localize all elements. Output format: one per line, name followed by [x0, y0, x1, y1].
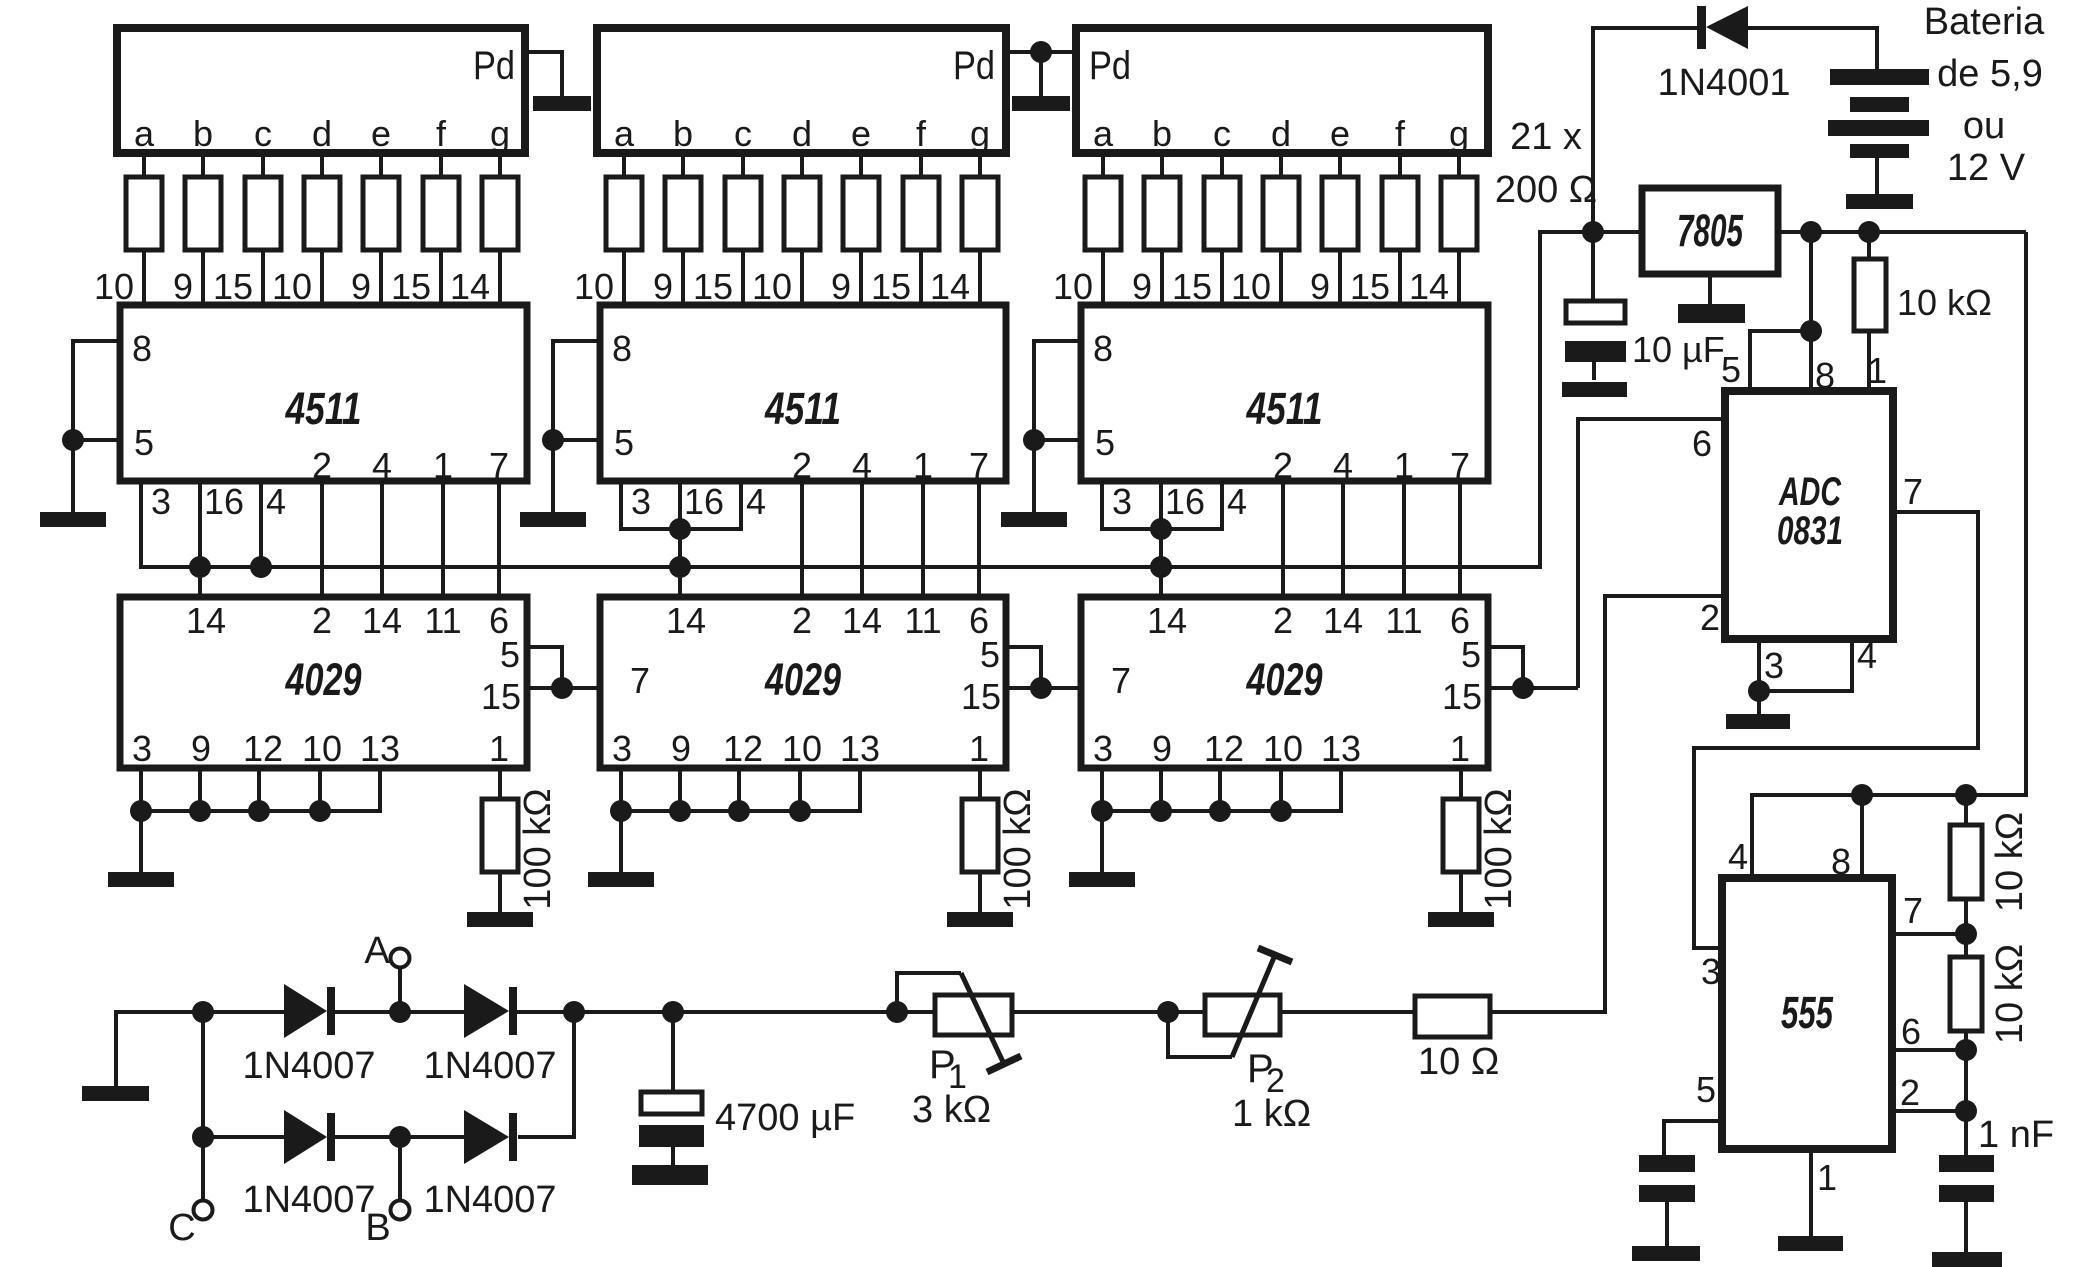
diode 1N4007 D2	[464, 984, 509, 1038]
svg-text:2: 2	[312, 445, 332, 486]
diode 1N4007 D1	[284, 984, 327, 1038]
svg-text:10 kΩ: 10 kΩ	[1989, 812, 2031, 912]
svg-text:15: 15	[1350, 266, 1390, 307]
svg-text:Bateria: Bateria	[1924, 1, 2045, 43]
wire 4700uF down	[671, 1012, 675, 1092]
resistor 10 kOhm (Vref)	[1854, 259, 1886, 331]
svg-text:3: 3	[151, 481, 171, 522]
wire ADC pin 3	[1757, 639, 1761, 691]
wire 555 pin 7	[1892, 932, 1966, 936]
svg-text:b: b	[1152, 113, 1172, 154]
svg-text:15: 15	[961, 676, 1001, 717]
svg-text:9: 9	[191, 728, 211, 769]
svg-text:14: 14	[362, 600, 402, 641]
ground (100k #3)	[1428, 912, 1494, 927]
wire 555 pin 5 to capacitor	[1664, 1121, 1722, 1155]
junction P2 bypass	[1157, 1001, 1179, 1023]
wire P2 bypass	[1168, 1012, 1232, 1057]
svg-text:10: 10	[1263, 728, 1303, 769]
svg-text:12: 12	[1204, 728, 1244, 769]
wire 10k top	[1867, 232, 1871, 259]
junction 10k chain top	[1955, 784, 1977, 806]
wire 10k to ADC pin 1	[1867, 331, 1871, 391]
svg-text:4511: 4511	[764, 383, 841, 434]
IC 4511 #1	[120, 305, 527, 481]
svg-text:100 kΩ: 100 kΩ	[1478, 788, 1520, 909]
svg-text:9: 9	[671, 728, 691, 769]
wire DISP2.g to resistor	[978, 153, 982, 177]
svg-text:a: a	[614, 113, 635, 154]
junction tie bus #3 +80	[1150, 800, 1172, 822]
wire 4029#3 bottom tie bus	[1102, 809, 1341, 813]
svg-text:de 5,9: de 5,9	[1937, 53, 2043, 95]
wire ADC pin 4	[1759, 639, 1852, 691]
diode 1N4001	[1697, 6, 1706, 49]
svg-text:g: g	[970, 113, 990, 154]
wire ADC pin 5	[1750, 331, 1811, 391]
wire 555 pin 6	[1892, 1048, 1966, 1052]
resistor 200 ohm (DISP3 seg a)	[1085, 177, 1121, 250]
wire Vcc rail to 555 pins 4/8	[1752, 232, 2026, 878]
svg-text:3: 3	[631, 481, 651, 522]
terminal B	[391, 1201, 410, 1220]
capacitor 10 uF	[1566, 301, 1625, 323]
wire resistor to 4511 pin 15	[919, 250, 923, 305]
ground (4700uF)	[632, 1165, 708, 1185]
svg-text:a: a	[1093, 113, 1114, 154]
svg-text:e: e	[371, 113, 391, 154]
svg-text:5: 5	[1696, 1069, 1716, 1110]
wire 4029#1 pin 15 to 4029#3 pin 7	[527, 686, 600, 690]
resistor 200 ohm (DISP1 seg e)	[363, 177, 399, 250]
wire DISP1.f to resistor	[439, 153, 443, 177]
svg-text:4511: 4511	[1246, 383, 1323, 434]
ground (4029#3 bus)	[1069, 872, 1135, 887]
ground (555 pin 1)	[1778, 1236, 1843, 1251]
svg-text:12: 12	[723, 728, 763, 769]
wire 4029#1 tie bus to ground	[139, 811, 143, 873]
wire resistor to 4511 pin 15	[261, 250, 265, 305]
svg-text:3: 3	[1093, 728, 1113, 769]
wire 1nF to ground	[1964, 1202, 1968, 1253]
wire bridge negative to ground	[116, 1012, 203, 1087]
svg-text:10: 10	[574, 266, 614, 307]
capacitor 4700 uF	[641, 1092, 702, 1114]
ground (10uF)	[1562, 382, 1627, 397]
svg-text:16: 16	[204, 481, 244, 522]
wire D1 anode	[203, 1010, 284, 1014]
wire ADC pin 2 from 10 ohm	[1605, 596, 1725, 1012]
resistor 100 kOhm #1	[482, 799, 518, 872]
ground (pin5 cap)	[1632, 1246, 1700, 1261]
svg-text:1: 1	[1867, 350, 1887, 391]
capacitor 1 nF	[1939, 1155, 1994, 1172]
junction bridge left lower	[192, 1126, 214, 1148]
svg-text:9: 9	[1310, 266, 1330, 307]
wire resistor to 4511 pin 10	[800, 250, 804, 305]
wire 4511#3 pin 4 down	[1220, 481, 1224, 531]
svg-text:4700 µF: 4700 µF	[715, 1097, 855, 1139]
svg-text:4: 4	[746, 481, 766, 522]
wire resistor to 4511 pin 15	[1220, 250, 1224, 305]
regulator 7805	[1642, 188, 1778, 274]
IC 555	[1722, 878, 1892, 1149]
svg-text:d: d	[792, 113, 812, 154]
svg-text:2: 2	[1273, 445, 1293, 486]
svg-text:7: 7	[969, 445, 989, 486]
svg-text:16: 16	[1165, 481, 1205, 522]
wire common bus to 7805 input	[141, 232, 1642, 567]
svg-text:3: 3	[132, 728, 152, 769]
wire 4700uF to ground	[671, 1147, 675, 1167]
svg-text:10 kΩ: 10 kΩ	[1897, 282, 1992, 323]
svg-text:8: 8	[612, 328, 632, 369]
ground (bridge)	[82, 1086, 149, 1101]
wire 4511#1 pin 7 to 4029	[497, 481, 501, 597]
wire D1 cathode to node A	[335, 1010, 464, 1014]
junction ADC pin5/pin8	[1800, 320, 1822, 342]
capacitor (555 pin 5)	[1639, 1155, 1695, 1172]
wire 4029#3 bottom pin at +80	[1159, 768, 1163, 813]
svg-text:7: 7	[489, 445, 509, 486]
resistor 100 kOhm #3	[1443, 799, 1479, 872]
svg-text:11: 11	[1385, 600, 1422, 641]
resistor 200 ohm (DISP2 seg d)	[784, 177, 820, 250]
diode 1N4007 D3	[284, 1110, 327, 1164]
svg-text:4: 4	[1227, 481, 1247, 522]
svg-text:4: 4	[266, 481, 286, 522]
svg-text:10 Ω: 10 Ω	[1418, 1041, 1499, 1083]
wire DISP3.c to resistor	[1220, 153, 1224, 177]
svg-text:4: 4	[1333, 445, 1353, 486]
svg-text:4: 4	[372, 445, 392, 486]
junction tie bus #3 +200	[1270, 800, 1292, 822]
svg-text:g: g	[490, 113, 510, 154]
junction tie bus #1 +80	[189, 800, 211, 822]
junction bus/pin14 #3	[1150, 556, 1172, 578]
svg-text:9: 9	[831, 266, 851, 307]
wire 4029#1 pin 1 to resistor	[498, 768, 502, 799]
wire 4029#1 bottom pin at +139	[257, 768, 261, 813]
svg-text:e: e	[1330, 113, 1350, 154]
svg-text:1: 1	[1817, 1157, 1837, 1198]
wire 1N4001 cathode line	[1593, 28, 1698, 230]
wire DISP1.a to resistor	[142, 153, 146, 177]
wire DISP2.e to resistor	[859, 153, 863, 177]
wire 4029#3 bottom pin at +21	[1100, 768, 1104, 813]
wire 4511#3 pin 5	[1034, 438, 1081, 442]
ground (1nF)	[1932, 1252, 2002, 1267]
ground (4511#1)	[40, 512, 106, 527]
svg-text:2: 2	[1273, 600, 1293, 641]
wire 4511#1 pin 4 to 4029	[380, 481, 384, 597]
wire P1 to P2	[1012, 1010, 1205, 1014]
junction Pd2/Pd3	[1030, 41, 1052, 63]
svg-text:11: 11	[424, 600, 461, 641]
junction P1 bypass	[886, 1001, 908, 1023]
junction tie bus #1 +139	[248, 800, 270, 822]
wire D3 cathode to node B	[335, 1135, 464, 1139]
svg-text:5: 5	[614, 422, 634, 463]
ground (4029#1 bus)	[108, 872, 174, 887]
wire 4029#3 pin 1 to resistor	[1459, 768, 1463, 799]
resistor 200 ohm (DISP2 seg e)	[843, 177, 879, 250]
svg-text:2: 2	[312, 600, 332, 641]
svg-text:g: g	[1449, 113, 1469, 154]
wire DISP1.d to resistor	[320, 153, 324, 177]
wire 555 pin 8	[1860, 795, 1864, 878]
resistor 100 kOhm #2	[962, 799, 998, 872]
wire DISP3.e to resistor	[1338, 153, 1342, 177]
junction 555 pin 7	[1955, 923, 1977, 945]
svg-text:Pd: Pd	[953, 44, 995, 88]
ground (4511#3)	[1001, 512, 1067, 527]
wire 4511#2 pin 4 to 4029	[860, 481, 864, 597]
svg-text:9: 9	[173, 266, 193, 307]
junction pins 3-16-4 #2	[669, 518, 691, 540]
svg-text:15: 15	[1442, 676, 1482, 717]
wire pins 3-16-4 tie #3	[1102, 527, 1222, 531]
ground (DISP1 Pd)	[533, 96, 591, 111]
svg-text:10 µF: 10 µF	[1632, 329, 1725, 370]
svg-text:15: 15	[391, 266, 431, 307]
wire 4511#2 pin 1 to 4029	[921, 481, 925, 597]
svg-text:10: 10	[272, 266, 312, 307]
wire DISP3.b to resistor	[1160, 153, 1164, 177]
junction 4029#1 pin5/pin15	[551, 677, 573, 699]
junction 555 pin 2	[1955, 1100, 1977, 1122]
svg-text:3: 3	[612, 728, 632, 769]
svg-text:16: 16	[684, 481, 724, 522]
svg-text:1N4007: 1N4007	[242, 1179, 375, 1221]
wire DISP1 Pd to ground	[525, 52, 562, 97]
svg-text:a: a	[134, 113, 155, 154]
ground (ADC)	[1726, 714, 1790, 729]
svg-text:10: 10	[1231, 266, 1271, 307]
junction 4029#3 pin5/pin15	[1512, 677, 1534, 699]
resistor 200 ohm (DISP2 seg g)	[962, 177, 998, 250]
junction bridge plus	[563, 1001, 585, 1023]
IC 4511 #2	[600, 305, 1006, 481]
svg-text:0831: 0831	[1777, 509, 1843, 553]
wire ADC pin 7 to 555 pin 3	[1694, 512, 1978, 948]
wire 4029#2 pin 15 to 4029#4 pin 7	[1006, 686, 1081, 690]
wire 4511#3 pin 4 to 4029	[1341, 481, 1345, 597]
svg-text:1 nF: 1 nF	[1978, 1114, 2054, 1156]
wire cap to ground	[1665, 1202, 1669, 1247]
ground (battery)	[1846, 194, 1913, 209]
svg-text:1: 1	[1394, 445, 1414, 486]
wire resistor to 4511 pin 14	[498, 250, 502, 305]
svg-text:3: 3	[1701, 951, 1721, 992]
svg-text:8: 8	[132, 328, 152, 369]
svg-text:d: d	[1271, 113, 1291, 154]
wire 4029#1 bottom pin at +200	[318, 768, 322, 813]
junction pin16/bus	[189, 556, 211, 578]
junction pin4/bus	[250, 556, 272, 578]
ground (4511#2)	[520, 512, 586, 527]
svg-text:1N4001: 1N4001	[1657, 62, 1790, 104]
svg-text:7: 7	[630, 660, 650, 701]
svg-text:7: 7	[1111, 660, 1131, 701]
wire 4029#3 bottom pin at +139	[1218, 768, 1222, 813]
diode 1N4007 D4	[464, 1110, 509, 1164]
wire 4511#2 pin 8	[553, 339, 600, 343]
wire resistor to 4511 pin 15	[439, 250, 443, 305]
wire 4511#1 pin 2 to 4029	[320, 481, 324, 597]
junction tie bus #3 +21	[1091, 800, 1113, 822]
svg-text:12 V: 12 V	[1947, 147, 2026, 189]
wire DISP2.c to resistor	[741, 153, 745, 177]
wire 4511#1 pin 8	[73, 339, 120, 343]
wire 4029#2 bottom pin at +260	[858, 768, 862, 813]
wire 555 pin 2	[1892, 1109, 1966, 1113]
junction node A	[389, 1001, 411, 1023]
wire 4511#3 pin 8	[1034, 339, 1081, 343]
svg-text:1N4007: 1N4007	[423, 1045, 556, 1087]
wire 4029#2 bottom pin at +21	[619, 768, 623, 813]
wire DISP1.c to resistor	[261, 153, 265, 177]
junction 4511#1 pin5/pin8	[62, 429, 84, 451]
svg-text:21 x: 21 x	[1510, 116, 1582, 158]
wire 4511#3 to ground	[1032, 339, 1036, 512]
wire resistor to 4511 pin 9	[1338, 250, 1342, 305]
resistor 200 ohm (DISP1 seg a)	[126, 177, 162, 250]
terminal A	[391, 949, 410, 968]
wire ADC pin 6 from 4029 chain	[1578, 419, 1725, 688]
wire resistor to 4511 pin 10	[142, 250, 146, 305]
wire resistor to 4511 pin 9	[1160, 250, 1164, 305]
junction tie bus #2 +21	[610, 800, 632, 822]
svg-text:14: 14	[930, 266, 970, 307]
wire to terminal A	[398, 967, 402, 1012]
wire DISP3.d to resistor	[1279, 153, 1283, 177]
svg-text:1: 1	[913, 445, 933, 486]
svg-text:14: 14	[1323, 600, 1363, 641]
wire resistor to 4511 pin 10	[1279, 250, 1283, 305]
svg-text:13: 13	[360, 728, 400, 769]
wire 10k#1 to 10k#2	[1964, 899, 1968, 957]
svg-text:8: 8	[1093, 328, 1113, 369]
resistor 200 ohm (DISP1 seg d)	[304, 177, 340, 250]
svg-text:2: 2	[792, 445, 812, 486]
svg-text:b: b	[673, 113, 693, 154]
svg-text:3: 3	[1112, 481, 1132, 522]
resistor 200 ohm (DISP2 seg f)	[903, 177, 939, 250]
wire 4511#2 pin 16 down to 4029 pin 14	[678, 481, 682, 597]
terminal C	[194, 1201, 213, 1220]
potentiometer P2 1k body	[1205, 995, 1280, 1035]
svg-text:f: f	[436, 113, 447, 154]
junction bus/pin14 #2	[669, 556, 691, 578]
junction tie bus #1 +200	[309, 800, 331, 822]
resistor 200 ohm (DISP2 seg c)	[725, 177, 761, 250]
junction tie bus #2 +200	[789, 800, 811, 822]
resistor 10 kOhm (555 #2)	[1950, 957, 1982, 1031]
wire 4511#2 pin 2 to 4029	[800, 481, 804, 597]
svg-text:3: 3	[1764, 645, 1784, 686]
svg-text:1N4007: 1N4007	[423, 1179, 556, 1221]
7-segment display DISP1	[117, 28, 525, 153]
wire left column	[201, 1012, 205, 1137]
wire resistor to 4511 pin 10	[1101, 250, 1105, 305]
svg-text:9: 9	[653, 266, 673, 307]
wire 4029#1 pin 5	[527, 647, 562, 688]
wire DISP2.d to resistor	[800, 153, 804, 177]
P2 wiper	[1232, 955, 1275, 1057]
wire right column	[518, 1012, 574, 1137]
svg-text:10: 10	[94, 266, 134, 307]
wire battery minus to ground	[1875, 158, 1879, 196]
wire 10uF to ground	[1592, 362, 1596, 380]
wire rail to 10k #1	[1964, 795, 1968, 825]
resistor 10 Ohm	[1415, 996, 1490, 1037]
svg-text:f: f	[916, 113, 927, 154]
svg-text:b: b	[193, 113, 213, 154]
wire lower row left	[203, 1135, 284, 1139]
wire to terminal B	[398, 1137, 402, 1201]
wire to terminal C	[201, 1137, 205, 1201]
svg-text:4: 4	[1728, 836, 1748, 877]
wire 4511#2 pin 7 to 4029	[977, 481, 981, 597]
svg-text:2: 2	[1700, 597, 1720, 638]
resistor 10 kOhm (555 #1)	[1950, 825, 1982, 899]
svg-text:ADC: ADC	[1778, 470, 1842, 514]
resistor 200 ohm (DISP2 seg b)	[665, 177, 701, 250]
svg-text:15: 15	[871, 266, 911, 307]
wire 4029#2 bottom pin at +80	[678, 768, 682, 813]
wire 100k resistor to ground #2	[978, 872, 982, 912]
svg-text:5: 5	[1095, 422, 1115, 463]
svg-text:5: 5	[1461, 634, 1481, 675]
ground (100k #1)	[467, 912, 533, 927]
svg-text:15: 15	[693, 266, 733, 307]
wire 4511#1 pin 3 down	[139, 481, 143, 569]
junction tie bus #2 +80	[669, 800, 691, 822]
resistor 200 ohm (DISP2 seg a)	[606, 177, 642, 250]
wire 4029#1 bottom pin at +260	[378, 768, 382, 813]
wire resistor to 4511 pin 14	[978, 250, 982, 305]
ground (4029#2 bus)	[588, 872, 654, 887]
svg-text:9: 9	[1152, 728, 1172, 769]
svg-text:c: c	[734, 113, 752, 154]
svg-text:1N4007: 1N4007	[242, 1045, 375, 1087]
svg-text:10: 10	[752, 266, 792, 307]
svg-text:14: 14	[666, 600, 706, 641]
svg-text:1: 1	[1450, 728, 1470, 769]
wire resistor to 4511 pin 14	[1457, 250, 1461, 305]
junction tie bus #1 +21	[130, 800, 152, 822]
svg-text:9: 9	[1132, 266, 1152, 307]
svg-text:6: 6	[1901, 1011, 1921, 1052]
svg-text:10: 10	[302, 728, 342, 769]
svg-text:15: 15	[481, 676, 521, 717]
wire 4511#3 pin 1 to 4029	[1402, 481, 1406, 597]
wire 7805 output line	[1778, 230, 2026, 234]
svg-text:4029: 4029	[285, 654, 362, 705]
junction 555 pin 6	[1955, 1039, 1977, 1061]
svg-text:14: 14	[1409, 266, 1449, 307]
wire Pd junction to ground	[1039, 52, 1043, 97]
wire 4029#3 pin 5	[1488, 647, 1523, 688]
wire resistor to 4511 pin 9	[681, 250, 685, 305]
wire DISP3.f to resistor	[1398, 153, 1402, 177]
svg-text:555: 555	[1781, 987, 1834, 1038]
wire 4029#2 pin 5	[1006, 647, 1041, 688]
wire DISP3.g to resistor	[1457, 153, 1461, 177]
resistor 200 ohm (DISP3 seg c)	[1204, 177, 1240, 250]
svg-text:5: 5	[134, 422, 154, 463]
